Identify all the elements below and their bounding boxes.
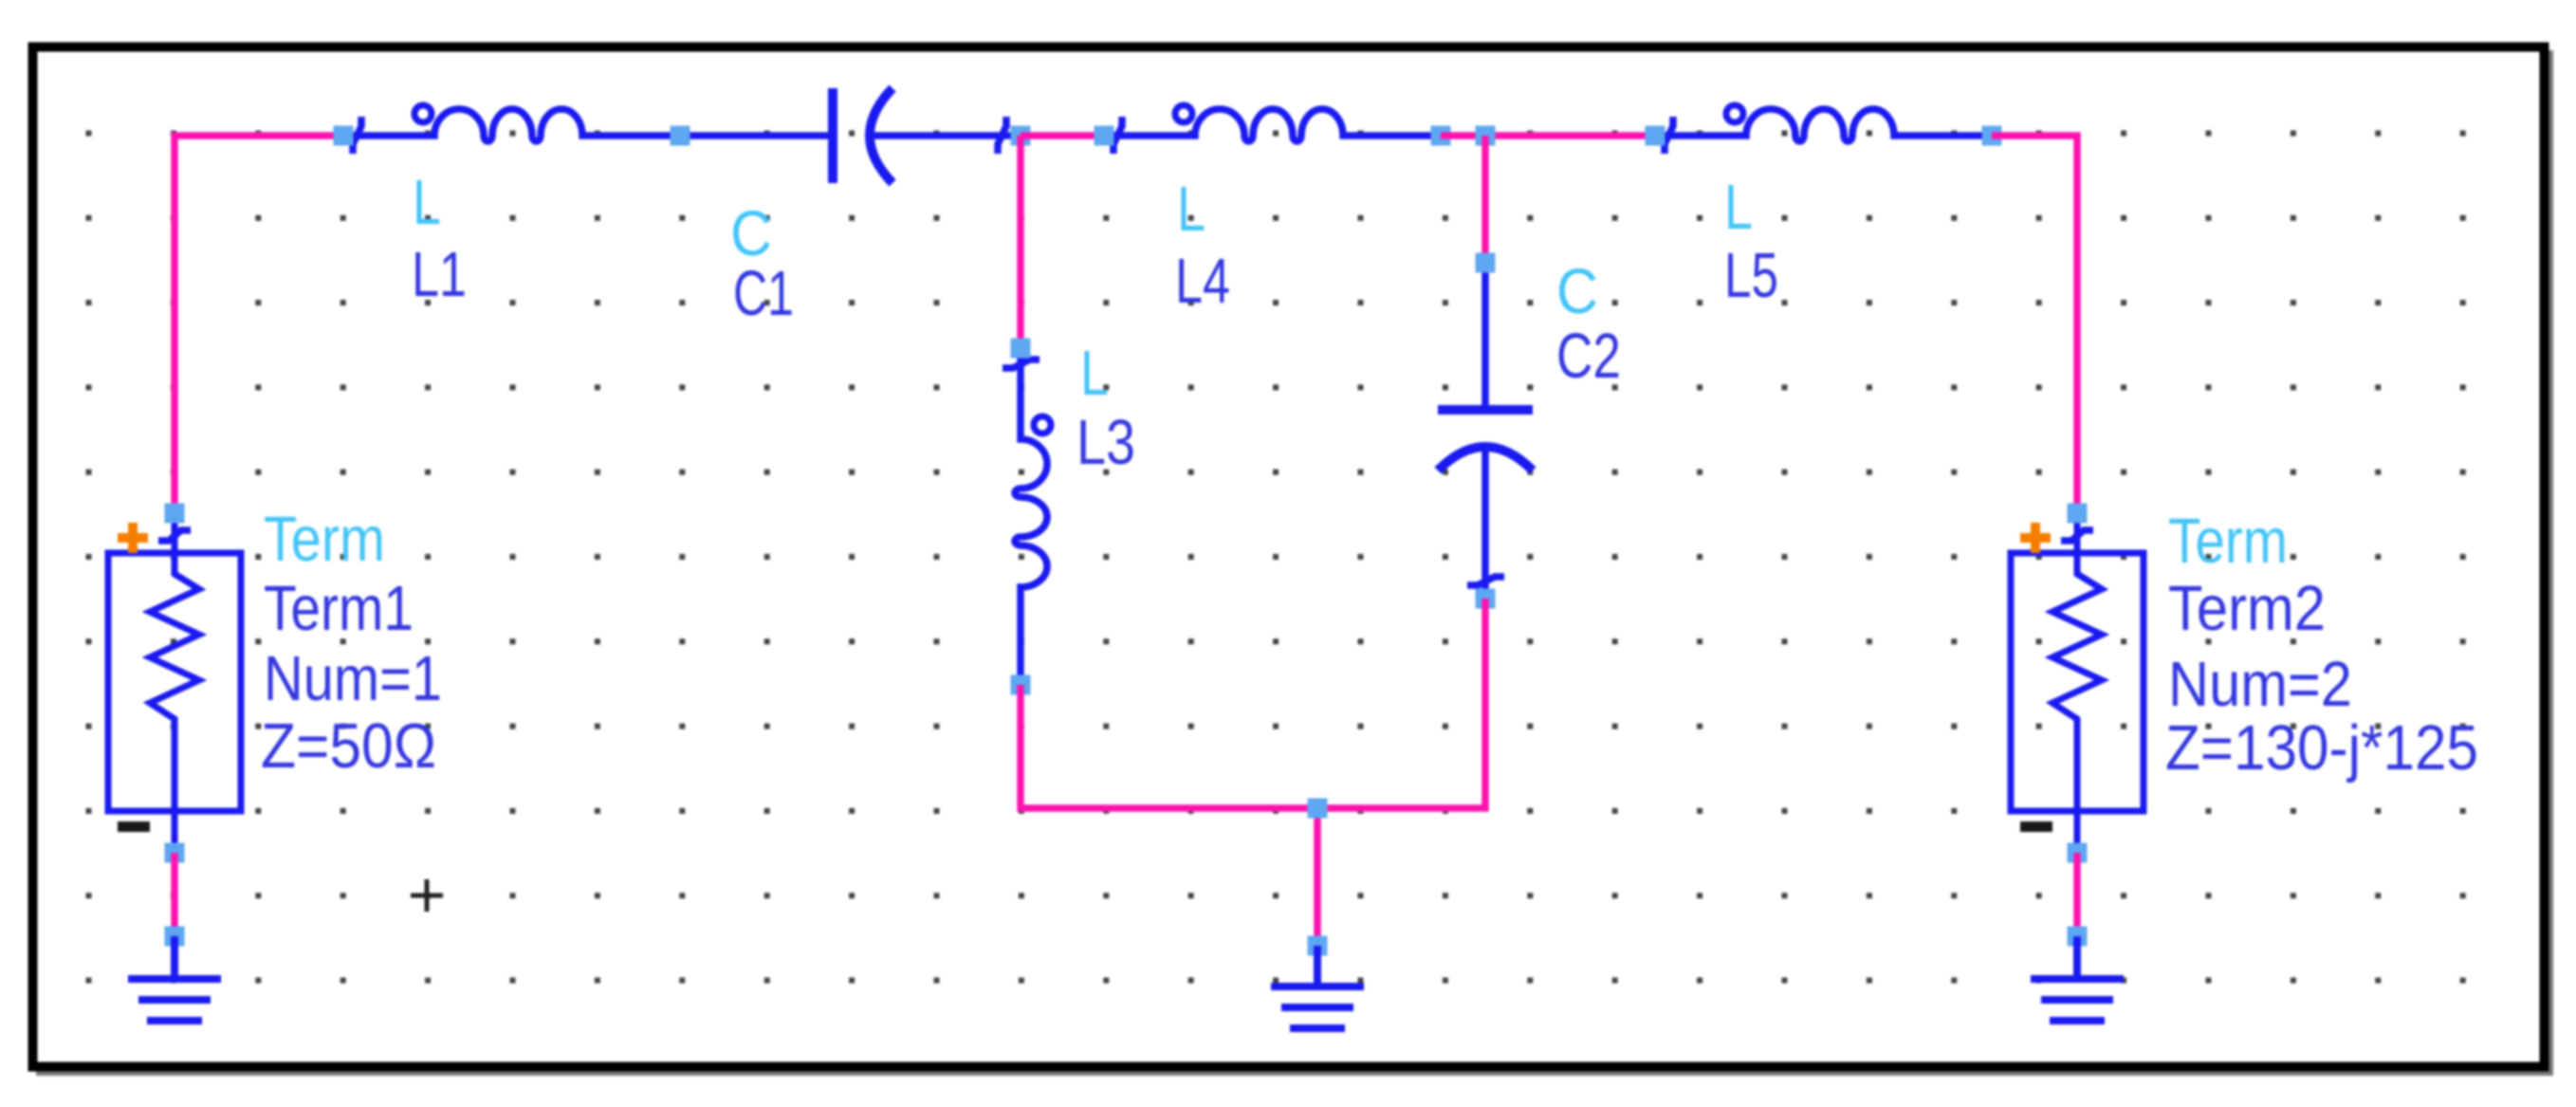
pin tick L5 pin1 <box>1665 117 1673 154</box>
pin tick C1 pin1 <box>998 117 1006 154</box>
svg-text:L: L <box>1177 174 1205 245</box>
node/junction square L5 pin1 <box>1646 126 1665 146</box>
inductor L3 (shunt) <box>1015 348 1051 685</box>
svg-text:Z=50Ω: Z=50Ω <box>261 710 436 782</box>
inductor L1 <box>343 105 833 141</box>
pin tick L1 pin1 <box>353 117 361 154</box>
svg-text:L: L <box>1724 172 1753 243</box>
svg-text:L: L <box>1080 338 1109 409</box>
node/junction square C2 pin1 <box>1476 589 1496 609</box>
node/junction square ground1 pin <box>165 927 185 947</box>
node/junction square L1 pin1 <box>334 126 354 146</box>
svg-text:L5: L5 <box>1724 240 1778 311</box>
svg-text:Term: Term <box>264 504 385 575</box>
terminal Term1 <box>108 513 241 853</box>
node/junction square L4 pin1 <box>1095 126 1114 146</box>
inductor L4 <box>1104 105 1441 141</box>
wire L3/C2 bottom net <box>1021 599 1485 946</box>
pin tick L4 pin1 <box>1113 117 1122 154</box>
polarity plus Term2 (orange) <box>2020 523 2051 553</box>
polarity plus Term1 (orange) <box>118 523 148 553</box>
polarity minus Term1 (black) <box>118 821 150 832</box>
svg-text:Term2: Term2 <box>2168 573 2326 644</box>
svg-text:L4: L4 <box>1175 246 1230 317</box>
node/junction square L4 pin2 <box>1431 126 1451 146</box>
node/junction square Term1 pin2 <box>165 843 185 863</box>
wire Term2 to ground <box>2073 853 2081 936</box>
node/junction square Term1 pin1 <box>165 504 185 524</box>
capacitor C2 (shunt) <box>1438 263 1533 599</box>
wire node N2 down to C2 <box>1481 136 1489 263</box>
ground symbol left <box>128 936 221 1021</box>
node N2: junction to C2 branch <box>1476 126 1496 146</box>
pin tick L3 pin1 <box>1003 360 1040 368</box>
wire output net from L5 to Term2 <box>1992 136 2077 513</box>
node/junction square L1 pin2 / C1 pin2 <box>671 126 690 146</box>
node/junction square ground2 pin <box>1308 936 1328 956</box>
node/junction square L3 pin1 <box>1011 339 1031 359</box>
pin tick Term2 pin1 <box>2061 530 2093 541</box>
svg-text:C1: C1 <box>733 258 794 329</box>
pin tick Term1 pin1 <box>158 530 191 541</box>
svg-text:Num=1: Num=1 <box>264 643 442 714</box>
node/junction square C2 pin2 <box>1476 253 1496 273</box>
svg-text:Term: Term <box>2168 506 2288 577</box>
node/junction square Term2 pin1 <box>2068 504 2088 524</box>
wire Term1 to ground <box>171 853 178 936</box>
node/junction square ground3 pin <box>2068 927 2088 947</box>
node/junction square L5 pin2 <box>1982 126 2002 146</box>
node/junction square Term2 pin2 <box>2068 843 2088 863</box>
svg-text:Term1: Term1 <box>264 573 414 644</box>
wire input net from Term1 to L1 <box>175 136 343 513</box>
node N1: junction C1/L3/L4 <box>1011 126 1031 146</box>
capacitor C1 <box>833 88 1021 183</box>
inductor L5 <box>1655 105 1992 141</box>
pin tick C2 pin1 <box>1467 577 1504 585</box>
terminal Term2 <box>2011 513 2144 853</box>
svg-text:C: C <box>1556 256 1598 327</box>
polarity minus Term2 (black) <box>2020 821 2052 832</box>
ground symbol middle <box>1271 946 1364 1028</box>
svg-text:C2: C2 <box>1556 321 1621 392</box>
svg-text:Num=2: Num=2 <box>2168 649 2352 720</box>
svg-text:L: L <box>413 167 441 238</box>
wire L4 to L5 across node N2 <box>1441 132 1655 139</box>
origin marker plus (black) <box>411 879 443 912</box>
svg-text:L3: L3 <box>1076 407 1135 478</box>
svg-text:L1: L1 <box>412 239 467 310</box>
wire node N1 down to L3 <box>1017 136 1024 348</box>
svg-text:Z=130-j*125: Z=130-j*125 <box>2165 712 2478 784</box>
node/junction square L3 pin2 <box>1011 675 1031 695</box>
wire node N1 to L4 <box>1021 132 1104 139</box>
node N3: bottom tee junction <box>1308 799 1328 819</box>
ground symbol right <box>2031 936 2124 1021</box>
